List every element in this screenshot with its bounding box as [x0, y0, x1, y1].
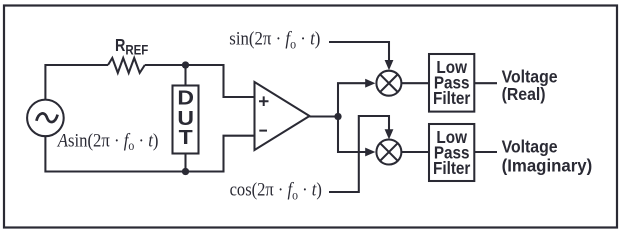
svg-text:sin(2π · fo · t): sin(2π · fo · t)	[229, 28, 320, 52]
svg-text:(Imaginary): (Imaginary)	[502, 155, 593, 176]
svg-text:Filter: Filter	[433, 88, 471, 108]
svg-text:cos(2π · fo · t): cos(2π · fo · t)	[230, 179, 322, 203]
svg-text:(Real): (Real)	[502, 84, 546, 104]
svg-text:T: T	[179, 125, 193, 148]
svg-text:Filter: Filter	[433, 158, 471, 178]
svg-text:RREF: RREF	[115, 37, 148, 58]
svg-text:Asin(2π · fo · t): Asin(2π · fo · t)	[57, 129, 159, 153]
